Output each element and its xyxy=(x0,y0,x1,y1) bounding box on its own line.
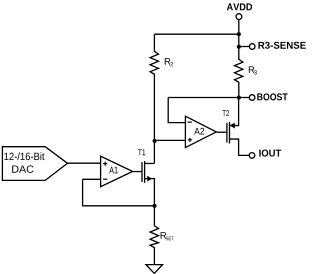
label T1 xyxy=(138,149,145,155)
wire top rail horizontal xyxy=(154,33,238,35)
transistor T1 gate plate xyxy=(141,162,143,182)
junction top rail xyxy=(237,32,241,36)
wire A2 noninverting input tap xyxy=(154,139,185,141)
wire AVDD to top rail xyxy=(238,20,240,34)
transistor T1 arrow xyxy=(147,176,152,182)
wire left column with resistor R2 xyxy=(150,34,158,163)
ground xyxy=(146,265,163,274)
wire node to RSET xyxy=(153,206,155,226)
junction A2 plus tap xyxy=(153,139,157,143)
label A2 xyxy=(194,128,204,135)
label BOOST xyxy=(257,93,287,100)
wire A2 feedback to inverting input xyxy=(168,98,185,123)
wire A1 feedback path xyxy=(83,179,155,206)
transistor T1 channel xyxy=(144,161,146,183)
op-amp A2 xyxy=(185,116,216,147)
wire R3-SENSE stub xyxy=(239,46,250,48)
label R3-SENSE xyxy=(258,42,305,49)
transistor T2 gate plate xyxy=(226,123,228,143)
label R3 xyxy=(249,66,255,73)
label R2 xyxy=(165,58,171,65)
op-amp A1 minus sign xyxy=(103,178,107,180)
wire T1 drain xyxy=(145,162,155,164)
op-amp A2 plus sign xyxy=(188,138,192,142)
junction R3-SENSE xyxy=(237,45,241,49)
resistor RSET xyxy=(150,226,158,265)
node AVDD terminal xyxy=(236,14,242,20)
transistor T2 arrow xyxy=(230,123,235,129)
node BOOST terminal xyxy=(249,95,255,101)
wire T2 source to IOUT xyxy=(230,139,250,155)
resistor R3 xyxy=(235,47,243,98)
wire A1 inverting input xyxy=(83,178,101,180)
label DAC line1 xyxy=(4,152,44,160)
node IOUT terminal xyxy=(249,153,255,159)
label AVDD xyxy=(227,3,252,10)
junction T1 source feedback xyxy=(153,204,157,208)
op-amp A1 xyxy=(101,156,133,187)
node R3-SENSE terminal xyxy=(249,44,255,50)
transistor T2 channel xyxy=(229,122,231,144)
op-amp A2 minus sign xyxy=(188,121,192,123)
label RSET xyxy=(161,232,167,239)
label DAC line2 xyxy=(12,165,33,172)
op-amp A1 plus sign xyxy=(103,162,107,166)
label IOUT xyxy=(259,150,281,157)
wire T2 drain up to BOOST node xyxy=(230,98,239,126)
wire right column to R3-SENSE node xyxy=(238,34,240,47)
wire BOOST rail xyxy=(168,97,239,99)
label T2 xyxy=(222,110,229,116)
wire A2 output to T2 gate xyxy=(216,131,227,133)
wire BOOST stub xyxy=(239,97,250,99)
wire A1 output to T1 gate xyxy=(133,171,142,173)
block DAC outline xyxy=(2,147,67,181)
junction BOOST xyxy=(237,96,241,100)
wire DAC output to A1 noninverting input xyxy=(68,162,101,164)
wire T1 source down to feedback node xyxy=(145,179,155,206)
label A1 xyxy=(109,167,118,174)
